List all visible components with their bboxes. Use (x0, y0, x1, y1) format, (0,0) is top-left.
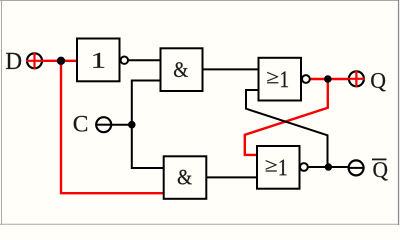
inversion bubble of U1 (121, 57, 128, 64)
AND gate U3 box (164, 156, 207, 199)
label & of gate U2 (174, 62, 188, 77)
wire gate1 bubble to AND1 input (128, 59, 160, 61)
label 1 of gate U1 (93, 53, 104, 68)
inversion bubble of U5 (300, 163, 308, 171)
NOR gate U5 box (257, 146, 300, 189)
junction dot on Qbar net (325, 163, 332, 170)
wire AND1 output to NOR1 input (203, 68, 259, 70)
wire D input to gate 1 (red) (43, 60, 77, 62)
wire AND2 output to NOR2 input (206, 176, 257, 178)
node label Qbar (372, 159, 388, 180)
node label Q (371, 73, 385, 91)
wire NOR1 bubble to Q (red) (310, 78, 348, 80)
node label D (6, 53, 21, 69)
wire D feedback down-left to bottom AND gate (red) (61, 61, 164, 193)
junction dot on D net (57, 57, 65, 65)
port circle Qbar with minus (349, 160, 364, 175)
wire C net vertical to AND1 and AND2 inputs (132, 81, 164, 169)
wire Qbar feedback cross to NOR1 input (246, 90, 328, 167)
label & of gate U3 (178, 170, 192, 185)
label >=1 of gate U4 (267, 72, 278, 83)
node label C (74, 116, 87, 132)
port circle Q with red plus (348, 70, 365, 87)
NOR gate U4 box (259, 58, 302, 101)
junction dot on C net (128, 121, 136, 129)
wire NOR2 bubble to Qbar (308, 166, 349, 168)
label >=1 of gate U5 (266, 160, 277, 171)
inversion bubble of U4 (302, 75, 310, 83)
port circle C with minus (96, 117, 111, 132)
wire C port to junction (111, 124, 132, 126)
buffer gate U1 box (77, 39, 120, 82)
port circle D with red plus (26, 52, 43, 69)
junction dot on Q net (324, 75, 332, 83)
wire Q feedback cross to NOR2 input (red) (245, 79, 328, 155)
AND gate U2 box (161, 48, 203, 91)
